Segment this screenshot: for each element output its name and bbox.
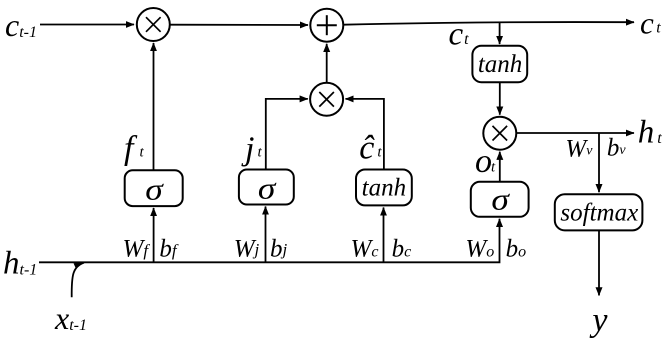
label c_{t-1} xyxy=(5,7,37,43)
sigma box U3j input gate xyxy=(239,170,294,206)
tanh box U5c candidate xyxy=(356,170,412,206)
wire U2 to c_t output xyxy=(344,22,635,25)
label h_{t-1} xyxy=(3,246,37,282)
svg-text:Wo: Wo xyxy=(465,236,494,263)
svg-text:y: y xyxy=(589,302,608,339)
multiply node U1 xyxy=(137,8,170,41)
wire U3j up and right to multiply node U7 xyxy=(266,99,308,170)
svg-text:ht: ht xyxy=(638,114,663,150)
svg-text:bo: bo xyxy=(506,236,526,263)
label c_t node xyxy=(449,17,470,53)
wire c line branch down to tanh U5 xyxy=(499,23,501,44)
wire U4 to h_t output xyxy=(516,132,634,134)
wire U1 to add node U2 xyxy=(170,24,308,26)
wire c_{t-1} to multiply node U1 xyxy=(40,24,134,26)
wire h line to U5c with arrow xyxy=(383,208,385,263)
softmax box U8 xyxy=(555,194,643,230)
svg-text:bf: bf xyxy=(159,236,179,263)
svg-text:bc: bc xyxy=(392,236,412,263)
label b_o xyxy=(506,236,526,263)
wire U7 to U2 xyxy=(326,44,328,83)
label W_f xyxy=(123,236,151,263)
label b_f xyxy=(159,236,179,263)
svg-text:σ: σ xyxy=(491,181,510,216)
label W_o xyxy=(465,236,494,263)
wire U8 to y output xyxy=(598,231,600,296)
svg-text:ft: ft xyxy=(124,130,144,167)
label W_v xyxy=(565,135,593,162)
wire U5 to multiply node U4 xyxy=(499,82,501,115)
sigma box U6 output gate xyxy=(471,181,529,216)
svg-text:Wc: Wc xyxy=(351,236,379,263)
wire h line to U3f with arrow xyxy=(153,208,155,262)
svg-text:σ: σ xyxy=(145,171,164,206)
label c_t output xyxy=(640,5,661,40)
svg-text:tanh: tanh xyxy=(478,51,522,78)
label f_t xyxy=(124,130,144,167)
svg-text:bj: bj xyxy=(270,236,288,263)
label b_v xyxy=(607,135,627,162)
svg-text:softmax: softmax xyxy=(560,199,638,226)
wire h line to U3j with arrow xyxy=(265,207,267,263)
label b_c xyxy=(392,236,412,263)
label W_j xyxy=(234,236,260,263)
label c-hat_t xyxy=(359,130,382,167)
tanh box U5 xyxy=(472,46,527,82)
wire U6 to U4 xyxy=(499,152,501,182)
svg-text:Wv: Wv xyxy=(565,135,593,162)
svg-text:bv: bv xyxy=(607,135,627,162)
label o_t xyxy=(475,143,496,180)
junction wedge x branch xyxy=(74,262,85,269)
wire h_{t-1} line across and up into U6 xyxy=(39,219,500,262)
svg-text:ĉt: ĉt xyxy=(359,130,382,167)
svg-text:xt-1: xt-1 xyxy=(54,300,87,336)
svg-text:Wj: Wj xyxy=(234,236,260,263)
svg-text:Wf: Wf xyxy=(123,236,151,263)
label y output xyxy=(589,302,608,339)
wire U5c up and left to U7 xyxy=(346,99,384,170)
svg-text:σ: σ xyxy=(258,170,277,205)
svg-text:ct-1: ct-1 xyxy=(5,7,37,43)
svg-text:tanh: tanh xyxy=(362,174,406,201)
wire U3f to U1 xyxy=(153,43,155,170)
label j_t xyxy=(241,131,262,168)
multiply node U4 xyxy=(483,117,516,150)
svg-text:jt: jt xyxy=(241,131,262,168)
add node U2 xyxy=(310,9,343,42)
label x_{t-1} xyxy=(54,300,87,336)
sigma box U3f forget gate xyxy=(125,170,183,206)
svg-text:ht-1: ht-1 xyxy=(3,246,37,282)
wire h_t branch down to softmax U8 xyxy=(598,133,600,192)
wire x_{t-1} branch curve xyxy=(72,263,84,298)
svg-text:ct: ct xyxy=(640,5,661,40)
label b_j xyxy=(270,236,288,263)
label W_c xyxy=(351,236,379,263)
multiply node U7 xyxy=(310,83,343,116)
label h_t output xyxy=(638,114,663,150)
